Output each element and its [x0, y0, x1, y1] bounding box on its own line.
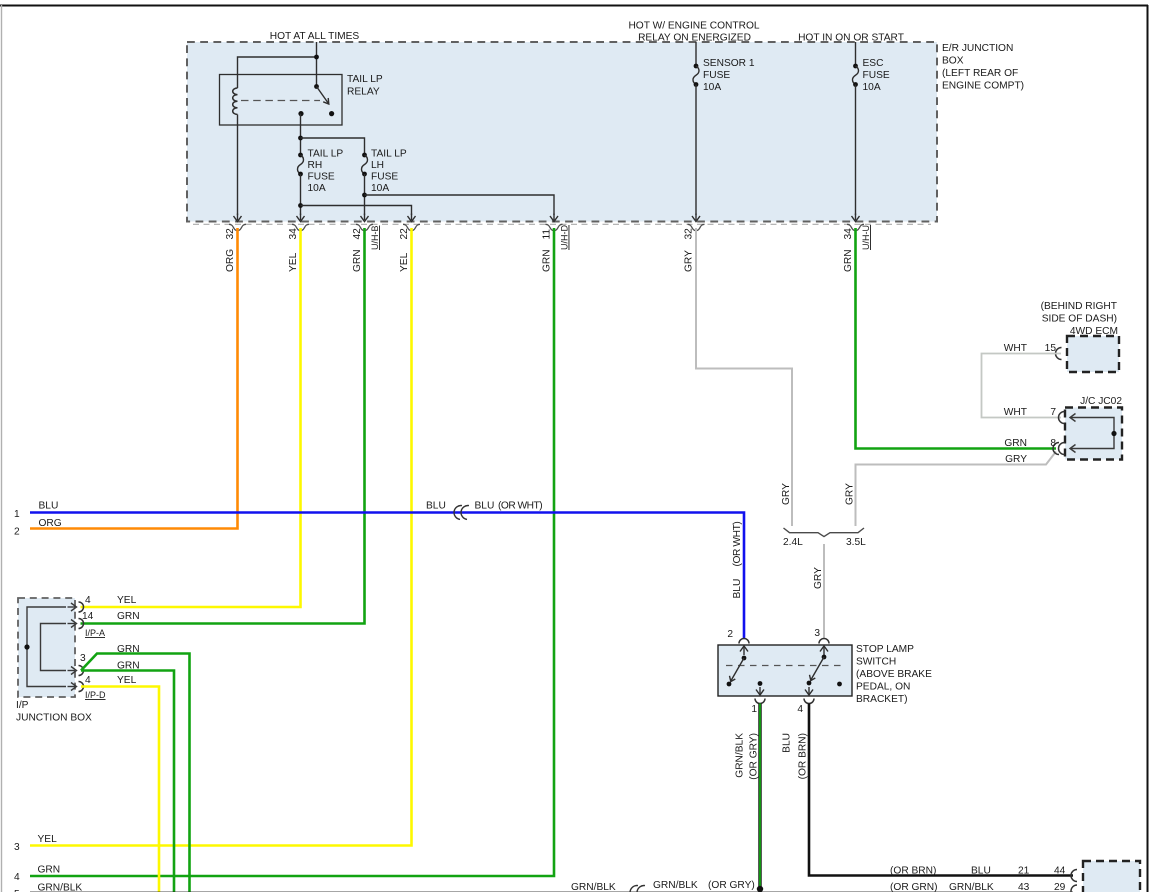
svg-text:11: 11 — [542, 229, 553, 240]
svg-text:FUSE: FUSE — [703, 70, 730, 81]
svg-text:GRN: GRN — [542, 249, 553, 272]
svg-text:15: 15 — [1045, 343, 1057, 354]
fuse TAIL LP RH 10A — [298, 153, 304, 177]
svg-text:(OR GRN): (OR GRN) — [890, 882, 938, 892]
svg-text:YEL: YEL — [117, 675, 137, 686]
fuse ESC 10A — [853, 42, 859, 215]
svg-text:GRN: GRN — [38, 865, 61, 876]
label 2 ORG — [14, 518, 62, 538]
label BLU (OR WHT) after splice — [475, 501, 543, 512]
label HOT W/ ENGINE CONTROL RELAY ON ENERGIZED — [628, 21, 759, 44]
svg-text:3: 3 — [80, 653, 86, 664]
wire GRN pin42 to I/P pin14 — [81, 228, 365, 624]
E/R pin 42 GRN — [352, 214, 380, 273]
svg-text:I/P-D: I/P-D — [85, 690, 106, 700]
svg-text:3.5L: 3.5L — [846, 537, 866, 548]
label GRY JC02 — [1005, 454, 1027, 465]
svg-text:BLU: BLU — [782, 733, 793, 753]
wire hot feed — [238, 42, 319, 88]
svg-text:GRY: GRY — [813, 567, 824, 589]
svg-text:BLU: BLU — [475, 501, 495, 512]
label ESC FUSE 10A — [863, 58, 890, 93]
svg-text:GRN/BLK: GRN/BLK — [653, 880, 698, 891]
I/P junction box — [18, 598, 75, 697]
svg-text:BLU: BLU — [39, 501, 59, 512]
label GRY 2.4L branch — [781, 483, 792, 505]
connector JC02 pin 8 double — [1053, 443, 1065, 455]
svg-text:ENGINE COMPT): ENGINE COMPT) — [942, 81, 1024, 92]
svg-text:2: 2 — [727, 629, 733, 640]
page border top — [0, 5, 1148, 7]
connector JC02 pin 7 — [1059, 412, 1065, 424]
svg-text:HOT IN ON OR START: HOT IN ON OR START — [798, 33, 904, 44]
fuse TAIL LP LH 10A — [362, 153, 368, 177]
label GRN 8 — [1004, 438, 1056, 449]
svg-text:ORG: ORG — [225, 249, 236, 272]
wire RH fuse to pins 34,22 — [298, 174, 411, 215]
label I/P pin 14 GRN I/P-A — [82, 611, 140, 638]
label 3 YEL row — [14, 834, 57, 853]
svg-text:FUSE: FUSE — [308, 172, 335, 183]
connector stop lamp pin 4 — [804, 699, 814, 704]
svg-text:(OR WHT): (OR WHT) — [732, 522, 743, 567]
svg-text:(OR GRY): (OR GRY) — [708, 880, 755, 891]
svg-text:GRN: GRN — [352, 249, 363, 272]
svg-text:RH: RH — [308, 160, 323, 171]
svg-text:4: 4 — [14, 872, 20, 883]
svg-text:ORG: ORG — [39, 518, 62, 529]
svg-text:WHT: WHT — [1004, 343, 1027, 354]
svg-text:32: 32 — [684, 228, 695, 240]
svg-text:U/H-U: U/H-U — [861, 225, 871, 250]
label BLU (OR BRN) vertical — [782, 733, 809, 779]
svg-text:GRN: GRN — [117, 611, 140, 622]
svg-text:GRY: GRY — [845, 483, 856, 505]
label (OR BRN) BLU 21 44 — [890, 865, 1066, 876]
wire GRN pin34 to JC02 pin8 — [856, 228, 1057, 449]
svg-text:GRN: GRN — [1004, 438, 1027, 449]
svg-text:BLU: BLU — [426, 501, 446, 512]
svg-text:HOT AT ALL TIMES: HOT AT ALL TIMES — [270, 31, 360, 42]
svg-text:4: 4 — [85, 595, 91, 606]
svg-text:22: 22 — [399, 228, 410, 240]
svg-text:STOP LAMP: STOP LAMP — [856, 644, 914, 655]
wire coil to pin 32 — [237, 125, 239, 215]
label GRY 3.5L branch — [845, 483, 856, 505]
svg-text:GRN/BLK: GRN/BLK — [949, 882, 994, 892]
wire GRN lower from I/P pin3 — [81, 671, 174, 892]
connector stop lamp pin 2 — [739, 639, 749, 644]
wire WHT ECM15 to JC02 pin7 — [982, 354, 1062, 418]
splice on BLU wire — [453, 505, 469, 520]
svg-text:BRACKET): BRACKET) — [856, 694, 908, 705]
svg-text:RELAY ON ENERGIZED: RELAY ON ENERGIZED — [638, 33, 751, 44]
svg-text:GRN/BLK: GRN/BLK — [571, 882, 616, 892]
svg-text:4: 4 — [797, 704, 803, 715]
wire BLU(OR BRN) stop lamp pin4 to connector 44 — [809, 704, 1073, 876]
svg-text:PEDAL, ON: PEDAL, ON — [856, 682, 910, 693]
svg-text:SIDE OF DASH): SIDE OF DASH) — [1042, 314, 1117, 325]
svg-text:10A: 10A — [308, 183, 326, 194]
svg-text:BOX: BOX — [942, 56, 964, 67]
label I/P pin 4 YEL — [85, 595, 137, 606]
switch pole 3-4 — [805, 646, 842, 695]
svg-text:(BEHIND RIGHT: (BEHIND RIGHT — [1041, 301, 1117, 312]
connector stop lamp pin 3 — [819, 639, 829, 644]
svg-text:SENSOR 1: SENSOR 1 — [703, 58, 755, 69]
label 3.5L — [846, 537, 866, 548]
label GRY below brace — [813, 567, 824, 589]
svg-text:J/C JC02: J/C JC02 — [1080, 396, 1122, 407]
brace 2.4L/3.5L merge — [784, 528, 865, 537]
page border right — [1147, 5, 1149, 892]
label STOP LAMP SWITCH (ABOVE BRAKE PEDAL, ON BRACKET) — [856, 644, 932, 705]
svg-text:GRY: GRY — [1005, 454, 1027, 465]
svg-text:2: 2 — [14, 527, 20, 538]
relay U1 TAIL LP RELAY box — [220, 75, 343, 126]
bottom right connector box — [1083, 861, 1140, 892]
svg-text:GRN: GRN — [843, 249, 854, 272]
stop lamp switch box — [718, 645, 852, 696]
svg-text:YEL: YEL — [399, 252, 410, 272]
label BLU before splice — [426, 501, 446, 512]
svg-text:(OR WHT): (OR WHT) — [498, 501, 542, 512]
wire GRN upper from I/P pin3 — [81, 654, 190, 892]
label I/P JUNCTION BOX — [16, 700, 92, 724]
label (OR GRN) GRN/BLK 43 29 — [890, 882, 1066, 892]
I/P pin 4b connector — [68, 682, 84, 692]
svg-text:BLU: BLU — [971, 865, 991, 876]
wire relay output to fuses — [298, 114, 364, 155]
svg-text:10A: 10A — [371, 183, 389, 194]
svg-text:10A: 10A — [863, 82, 881, 93]
label WHT 15 — [1004, 343, 1057, 354]
label GRN/BLK before splice — [571, 882, 616, 892]
svg-text:1: 1 — [14, 509, 20, 520]
label E/R JUNCTION BOX — [942, 43, 1024, 92]
svg-text:U/H-B: U/H-B — [370, 226, 380, 251]
wire GRN/BLK stop lamp pin1 — [758, 704, 761, 890]
svg-text:FUSE: FUSE — [863, 70, 890, 81]
label 1 BLU — [14, 501, 58, 521]
svg-text:GRN/BLK: GRN/BLK — [38, 883, 83, 892]
svg-text:8: 8 — [1050, 438, 1056, 449]
svg-text:YEL: YEL — [288, 252, 299, 272]
relay link dashed — [241, 100, 320, 102]
svg-text:BLU: BLU — [732, 579, 743, 599]
I/P pin 4 connector — [68, 602, 84, 612]
E/R pin 34 YEL — [288, 214, 309, 273]
wire YEL pin22 to left edge row3 — [30, 228, 412, 846]
label 5 GRN/BLK row — [14, 883, 82, 892]
relay coil — [233, 88, 238, 125]
label 1 — [751, 704, 757, 715]
wire ORG pin32 to left edge — [30, 228, 238, 529]
svg-text:U/H-D: U/H-D — [560, 225, 570, 250]
label 4 — [797, 704, 803, 715]
svg-text:3: 3 — [814, 628, 820, 639]
label TAIL LP LH FUSE 10A — [371, 149, 407, 195]
wire GRN/BLK bottom row — [30, 886, 1073, 892]
label 3 — [814, 628, 820, 639]
E/R pin 22 YEL — [399, 214, 420, 273]
I/P pin 14 connector — [68, 619, 84, 629]
svg-text:YEL: YEL — [117, 595, 137, 606]
label I/P pin 3 GRN GRN — [80, 644, 140, 672]
svg-text:(LEFT REAR OF: (LEFT REAR OF — [942, 68, 1018, 79]
label (BEHIND RIGHT SIDE OF DASH) 4WD ECM — [1041, 301, 1118, 337]
svg-text:YEL: YEL — [38, 834, 58, 845]
I/P pin 3 connector — [68, 666, 84, 676]
wire YEL pin34 to I/P pin4 — [81, 228, 301, 607]
svg-text:29: 29 — [1054, 882, 1066, 892]
J/C JC02 box — [1065, 408, 1122, 460]
svg-text:GRY: GRY — [781, 483, 792, 505]
svg-text:3: 3 — [14, 842, 20, 853]
label HOT IN ON OR START — [798, 33, 904, 44]
svg-text:RELAY: RELAY — [347, 87, 380, 98]
svg-text:44: 44 — [1054, 865, 1066, 876]
label J/C JC02 — [1080, 396, 1122, 407]
4WD ECM box — [1067, 336, 1119, 372]
E/R junction box — [187, 42, 937, 222]
svg-text:34: 34 — [843, 228, 854, 240]
connector ECM pin 15 — [1056, 348, 1062, 360]
label GRN/BLK (OR GRY) after splice — [653, 880, 755, 891]
svg-text:GRN/BLK: GRN/BLK — [735, 733, 746, 778]
JC02 inner rect with pins 7,8 — [1070, 414, 1117, 453]
svg-text:E/R JUNCTION: E/R JUNCTION — [942, 43, 1013, 54]
label 2.4L — [783, 537, 803, 548]
wire GRY pin32 to brace 2.4L — [696, 228, 792, 526]
svg-text:WHT: WHT — [1004, 407, 1027, 418]
wire LH fuse to pins 42,11 — [362, 174, 554, 215]
wire GRY brace to stop lamp pin3 — [823, 544, 825, 639]
label TAIL LP RELAY — [347, 74, 383, 98]
svg-text:TAIL LP: TAIL LP — [308, 149, 344, 160]
wire YEL from I/P pin4b — [81, 687, 159, 892]
wire BLU to stop lamp pin2 — [30, 513, 744, 640]
svg-text:14: 14 — [82, 611, 94, 622]
svg-text:ESC: ESC — [863, 58, 884, 69]
relay switch arm — [298, 84, 334, 116]
svg-text:GRY: GRY — [684, 250, 695, 272]
svg-text:LH: LH — [371, 160, 384, 171]
I/P inner bus B — [41, 624, 67, 671]
svg-text:34: 34 — [288, 228, 299, 240]
svg-text:(OR BRN): (OR BRN) — [890, 865, 936, 876]
svg-text:SWITCH: SWITCH — [856, 657, 896, 668]
connector stop lamp pin 1 — [755, 699, 765, 704]
connector pin 44 — [1071, 870, 1077, 882]
svg-text:(ABOVE BRAKE: (ABOVE BRAKE — [856, 669, 932, 680]
label 2 — [727, 629, 733, 640]
wire GRN pin11 to left edge row4 — [30, 228, 554, 876]
E/R pin 34 GRN — [843, 214, 871, 273]
E/R pin 32 ORG — [225, 214, 246, 273]
svg-text:TAIL LP: TAIL LP — [371, 149, 407, 160]
svg-text:10A: 10A — [703, 82, 721, 93]
label WHT 7 — [1004, 407, 1057, 418]
svg-text:HOT W/ ENGINE CONTROL: HOT W/ ENGINE CONTROL — [628, 21, 759, 32]
switch link dashed — [726, 665, 845, 667]
I/P inner bus A — [24, 607, 66, 687]
svg-text:32: 32 — [225, 228, 236, 240]
svg-text:42: 42 — [352, 228, 363, 240]
label BLU (OR WHT) vertical — [732, 522, 743, 599]
svg-text:21: 21 — [1018, 865, 1030, 876]
E/R pin 11 GRN — [542, 214, 570, 273]
svg-text:(OR GRY): (OR GRY) — [749, 733, 760, 780]
svg-text:1: 1 — [751, 704, 757, 715]
label SENSOR 1 FUSE 10A — [703, 58, 755, 93]
svg-text:7: 7 — [1050, 407, 1056, 418]
label GRN/BLK (OR GRY) vertical — [735, 733, 760, 780]
fuse SENSOR 1 10A — [693, 42, 699, 215]
svg-text:I/P: I/P — [16, 700, 29, 711]
svg-text:FUSE: FUSE — [371, 172, 398, 183]
svg-text:(OR BRN): (OR BRN) — [798, 733, 809, 779]
splice on GRN/BLK row — [629, 885, 645, 892]
svg-text:4: 4 — [85, 675, 91, 686]
svg-text:JUNCTION BOX: JUNCTION BOX — [16, 713, 92, 724]
label TAIL LP RH FUSE 10A — [308, 149, 344, 195]
label 4 GRN row — [14, 865, 60, 884]
wire GRY JC02 to brace 3.5L — [856, 452, 1057, 527]
svg-text:43: 43 — [1018, 882, 1030, 892]
svg-text:I/P-A: I/P-A — [85, 628, 105, 638]
svg-text:2.4L: 2.4L — [783, 537, 803, 548]
E/R bottom connector strip — [193, 223, 931, 225]
label HOT AT ALL TIMES — [270, 31, 360, 42]
switch pole 2-1 — [727, 646, 764, 695]
connector pin 29 — [1071, 885, 1077, 892]
label I/P pin 4b YEL I/P-D — [85, 675, 137, 700]
svg-text:TAIL LP: TAIL LP — [347, 74, 383, 85]
E/R pin 32 GRY — [684, 214, 705, 273]
page border left — [1, 5, 3, 892]
